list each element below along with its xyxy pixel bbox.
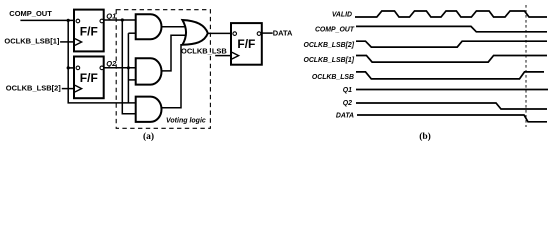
svg-text:Q2: Q2: [106, 59, 117, 68]
svg-text:COMP_OUT: COMP_OUT: [9, 9, 52, 18]
svg-text:F/F: F/F: [237, 37, 255, 51]
svg-text:DATA: DATA: [273, 29, 293, 38]
svg-text:Voting logic: Voting logic: [166, 117, 206, 124]
svg-text:DATA: DATA: [336, 112, 354, 119]
svg-text:F/F: F/F: [80, 71, 98, 85]
svg-text:OCLKB_LSB[2]: OCLKB_LSB[2]: [303, 42, 354, 49]
svg-text:(b): (b): [419, 131, 431, 142]
svg-text:OCLKB_LSB: OCLKB_LSB: [181, 47, 227, 56]
svg-text:OCLKB_LSB[1]: OCLKB_LSB[1]: [303, 57, 354, 64]
svg-text:(a): (a): [143, 131, 154, 142]
svg-text:OCLKB_LSB[1]: OCLKB_LSB[1]: [4, 37, 60, 46]
svg-text:VALID: VALID: [332, 12, 352, 19]
svg-text:OCLKB_LSB[2]: OCLKB_LSB[2]: [6, 84, 62, 93]
svg-text:Q2: Q2: [343, 100, 352, 107]
svg-text:OCLKB_LSB: OCLKB_LSB: [312, 74, 354, 81]
svg-text:COMP_OUT: COMP_OUT: [315, 26, 355, 33]
svg-text:Q1: Q1: [343, 87, 352, 94]
svg-text:Q1: Q1: [106, 11, 116, 20]
svg-text:F/F: F/F: [80, 24, 98, 38]
